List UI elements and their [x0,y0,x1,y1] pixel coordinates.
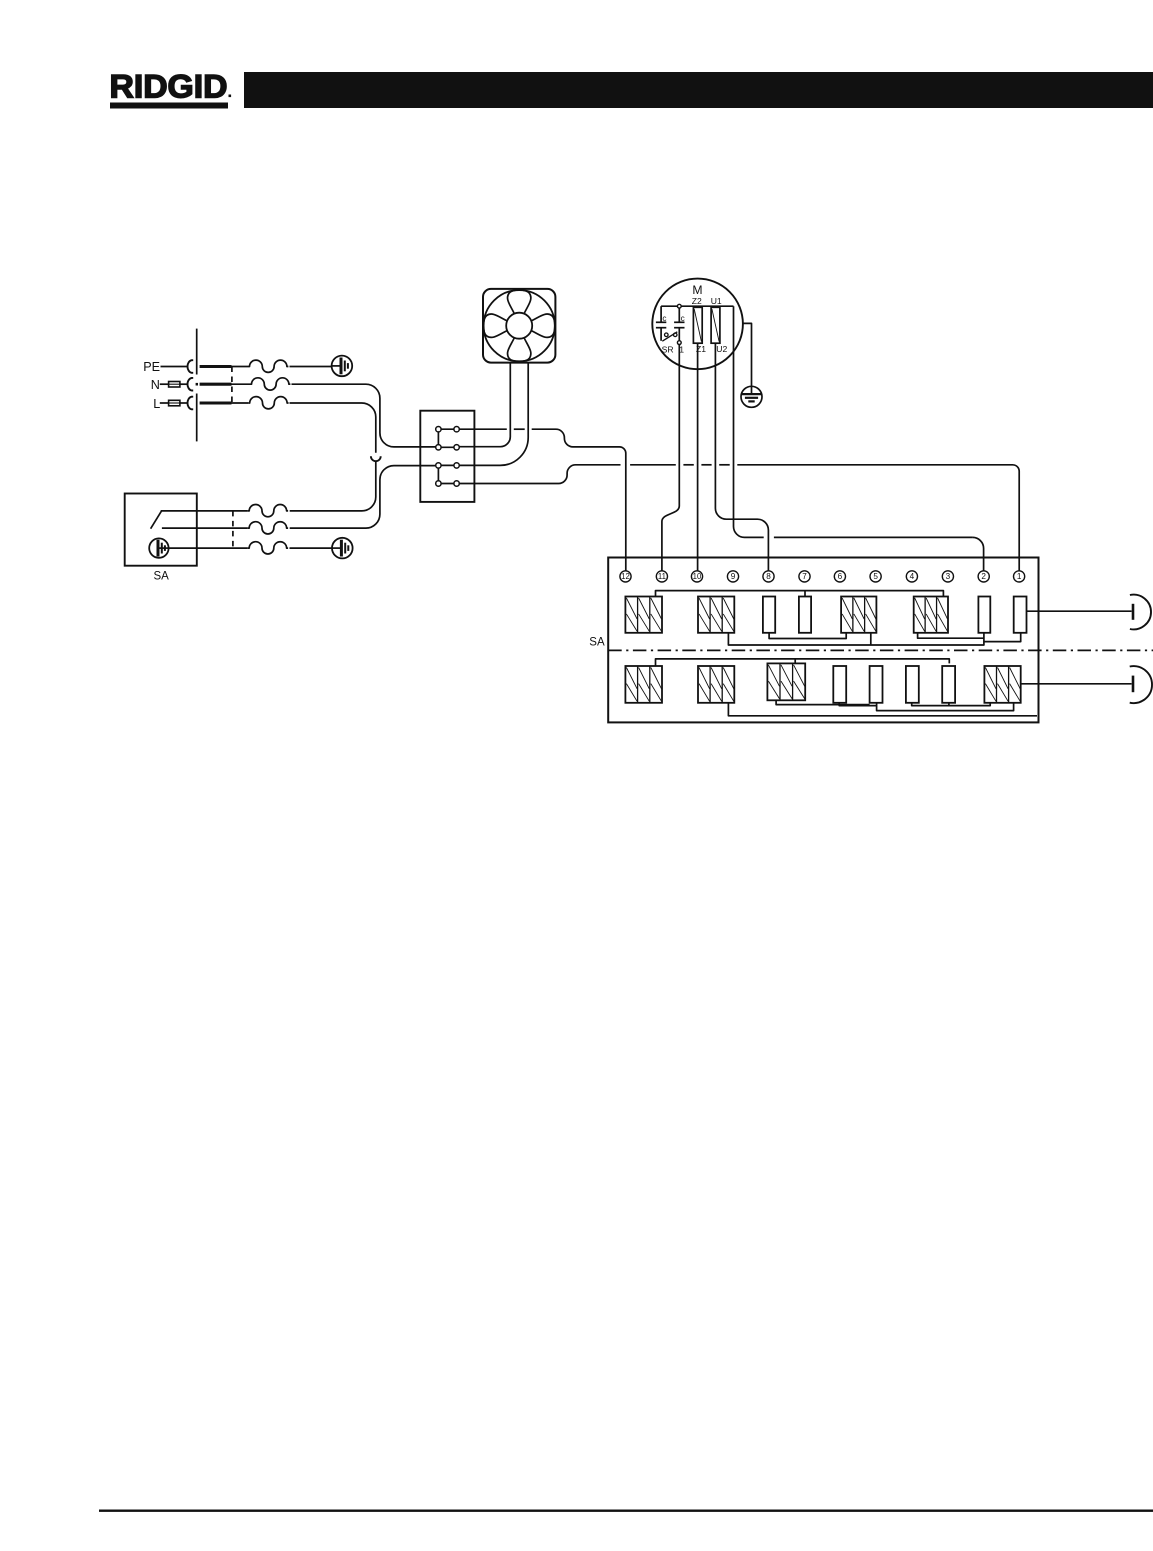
svg-text:9: 9 [731,572,736,581]
lower link 8-7 bottom run [776,700,870,704]
switch box (drum switch) [420,411,474,502]
terminal element upper 8 [763,597,775,633]
wire N to switch box rows 1-2 [292,384,436,447]
fan hub [506,313,532,339]
wire terminal block to lower plug [1021,683,1132,685]
terminal 11 [656,571,667,582]
RIDGID logo [110,69,232,109]
svg-text:1: 1 [1017,572,1022,581]
cable grommet SA-mid (wavy) [248,522,288,534]
wire SA middle contact [162,527,248,529]
svg-text:SA: SA [154,571,170,583]
svg-text:5: 5 [873,572,878,581]
fan ring [484,290,555,361]
svg-text:2: 2 [981,572,986,581]
plug pin lower [1132,676,1135,693]
fuse block upper 10-9 [698,597,734,633]
earth symbol PE [332,356,353,377]
switch box SA [125,494,197,566]
wire N lead2 [180,383,188,385]
svg-text:SA: SA [589,636,605,648]
fan M1 frame [483,289,555,363]
winding U1-U2 [711,307,720,343]
ferrule L [169,400,180,406]
wire motor-1 to terminal 11 [662,345,679,571]
connector contact N [187,378,193,391]
dashed link mains rows [231,367,233,404]
wire L to grommet [232,402,249,404]
lower bus bar [656,659,950,666]
motor M circle [652,279,743,370]
terminal 9 [727,571,738,582]
socket arc lower [1130,666,1152,703]
wire to right earth symbol [290,547,333,549]
wire SA earth run [169,547,248,549]
svg-text:Z2: Z2 [692,296,702,306]
connector contact PE [187,360,193,373]
cable grommet L (wavy) [248,397,288,409]
wire PE to earth [290,366,333,368]
terminal element lower 3 [942,666,955,703]
link row1-row2 left [437,429,439,447]
wire L lead [160,402,169,404]
wire PE lead [161,366,189,368]
fuse block lower 10-9 [698,666,734,703]
upper link 8 to 6-5 [769,633,846,639]
wire L connector to SA switch [290,462,376,511]
socket arc upper [1130,595,1151,630]
header black bar [244,72,1153,108]
wire fan right lead to switch row3 [459,363,528,466]
upper bus tap t7 [804,591,806,597]
lower link 5 to 2-1 bottom [877,703,1014,711]
contact row2 left [436,445,441,450]
upper link 10-9 to 6-5 and 2 [728,633,984,645]
wire L down to inline connector [290,403,376,453]
svg-text:RIDGID: RIDGID [110,69,228,105]
footer rule [99,1510,1153,1512]
wire N to grommet [232,383,251,385]
svg-text:M: M [692,283,702,297]
wire U1 to terminal 2 [734,306,764,537]
terminal 1 [1014,571,1025,582]
axis dash-dot line SA [608,649,1153,651]
contact row1 right [454,427,459,432]
lower link 6 to 5 [839,703,876,706]
lower bus tap 8-7 [794,659,796,664]
wire N stub (thick) [200,383,232,386]
cable grommet N (wavy) [250,378,290,390]
terminal 10 [691,571,702,582]
fuse block lower 8-7 [767,663,805,700]
svg-text:10: 10 [693,572,702,581]
svg-text:SR: SR [662,344,674,354]
upper bus bar [656,591,944,597]
wire SA top contact [161,510,248,512]
terminal element upper 2 [978,597,990,633]
svg-text:7: 7 [802,572,807,581]
fan blade left [483,314,507,337]
terminal element lower 4 [906,666,919,703]
winding Z2-Z1 [693,307,702,343]
svg-text:PE: PE [143,360,160,374]
contact row1 bridge [438,428,456,430]
svg-text:L: L [153,397,160,411]
svg-text:6: 6 [838,572,843,581]
socket boundary line [196,329,198,375]
svg-text:8: 8 [766,572,771,581]
connector contact L [187,397,193,410]
contact row3 right [454,463,459,468]
earth symbol motor [741,386,762,407]
upper link 2 to 1 [984,633,1021,642]
terminal 8 [763,571,774,582]
node on top rail [677,304,681,308]
wire L lead2 [180,402,188,404]
inline connector on L wire [371,456,381,461]
wire Z1 to terminal 10 [697,343,699,570]
cable grommet SA-top (wavy) [248,505,288,517]
link row3-row4 left [437,465,439,483]
wire PE stub (thick) [200,365,232,368]
svg-text:12: 12 [621,572,630,581]
capacitor C1 branch [660,306,662,322]
wire N lead [160,383,169,385]
terminal 12 [620,571,631,582]
cable grommet PE (wavy) [248,360,288,372]
wire row1 to terminal 12 [459,428,507,430]
wire PE to grommet [232,366,249,368]
contact row4 right [454,481,459,486]
terminal element upper 1 [1014,597,1027,633]
terminal 5 [870,571,881,582]
terminal 7 [799,571,810,582]
node dot on N row [196,383,198,386]
earth symbol inside SA [149,538,168,557]
cable grommet SA-earth (wavy) [248,542,288,554]
contact row2 right [454,445,459,450]
fuse block lower 2-1 [984,666,1020,703]
wire U2 to terminal 8 [715,343,768,570]
terminal element lower 5 [870,666,883,703]
svg-text:4: 4 [910,572,915,581]
node motor terminal 1 [677,341,681,345]
terminal element upper 7 [799,597,811,633]
contact row4 bridge [438,483,456,485]
fuse block lower 12-11 [625,666,662,703]
lower link 10-9 bottom run [728,703,1037,716]
svg-text:3: 3 [946,572,951,581]
centrifugal switch SR [665,333,669,337]
switch SA arm [151,511,162,529]
contact row3 left [436,463,441,468]
fan blade top [508,290,531,314]
contact row3 bridge [438,464,456,466]
contact row4 left [436,481,441,486]
svg-text:U1: U1 [711,296,722,306]
terminal strip box [608,558,1038,723]
capacitor C2 branch [678,308,680,322]
wire row4 to terminal 1 [459,465,620,484]
wire L stub (thick) [200,401,232,404]
upper link 4-3 to 2 [918,633,984,638]
fuse block upper 4-3 [914,597,948,633]
svg-text:N: N [151,378,160,392]
fuse block upper 6-5 [841,597,876,633]
terminal 6 [834,571,845,582]
earth symbol SA right [332,538,353,559]
wire SA middle to switch box rows 3-4 [290,466,436,528]
wire terminal block to upper plug [1027,610,1132,612]
terminal 2 [978,571,989,582]
lower link 4-3 to 2-1 [912,703,991,706]
dashed link SA rows [232,511,234,548]
wire motor case to earth [743,323,752,393]
svg-text:c: c [681,314,685,323]
fuse block upper 12-11 [625,597,662,633]
terminal 3 [942,571,953,582]
motor top rail [661,305,733,307]
fan blade bottom [508,338,531,362]
contact row2 bridge [438,446,456,448]
terminal 4 [906,571,917,582]
contact row1 left [436,427,441,432]
wire fan left lead to switch row2 [459,363,510,447]
ferrule N [169,382,180,388]
svg-text:11: 11 [658,572,666,581]
svg-text:c: c [662,314,666,323]
terminal element lower 6 [833,666,846,703]
plug pin upper [1132,604,1135,620]
svg-text:U2: U2 [716,344,727,354]
fan blade right [531,314,555,337]
